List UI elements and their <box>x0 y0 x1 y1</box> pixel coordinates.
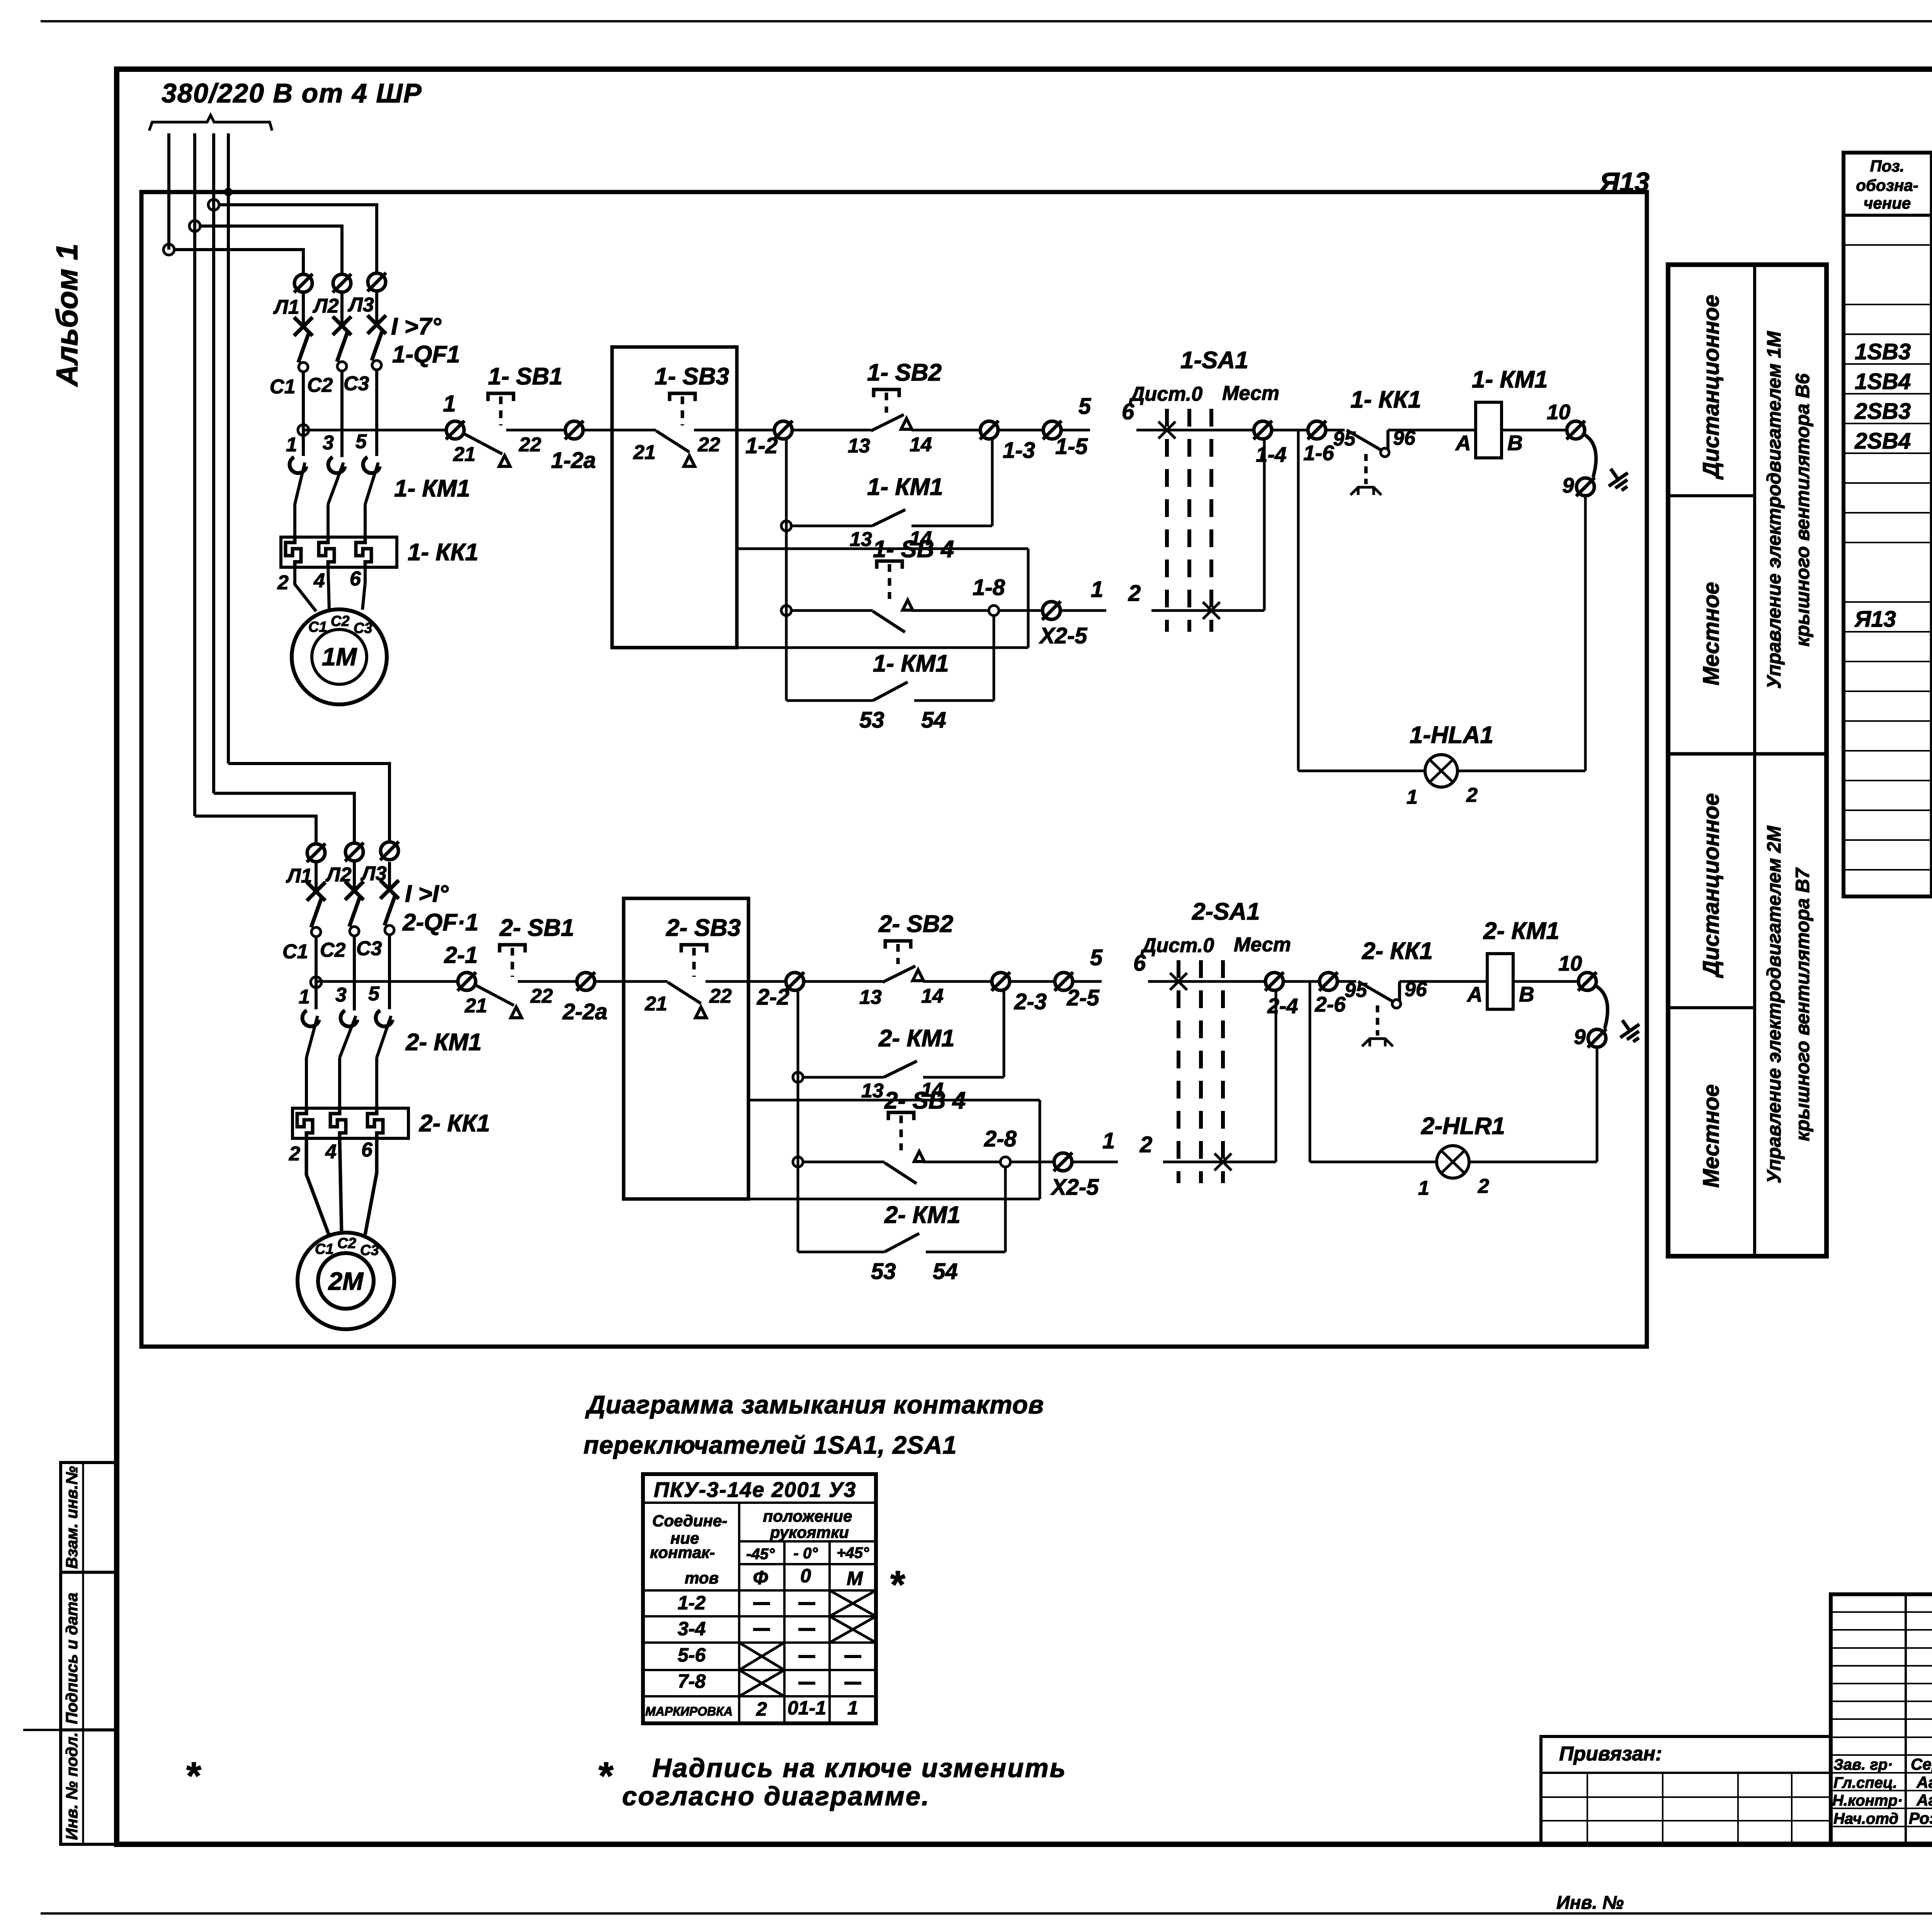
node feeder L3 tap <box>208 199 219 210</box>
label C1C2C3 motor1 <box>308 613 372 636</box>
svg-text:чение: чение <box>1864 194 1911 212</box>
terminal X2-5 2 <box>1054 1153 1072 1171</box>
wire loop top 1 <box>737 548 1028 550</box>
stamp label Инв.№ подл. <box>63 1732 81 1840</box>
label pin 4 <box>313 570 325 592</box>
svg-text:Инв. №: Инв. № <box>1556 1893 1624 1913</box>
junction SB4 2 <box>793 1157 803 1167</box>
contact 2-KM1 53-54 <box>798 1167 1005 1252</box>
label 1-6 <box>1303 441 1334 465</box>
svg-text:Надпись на ключе изменить: Надпись на ключе изменить <box>652 1753 1067 1783</box>
PKU row 1-2 <box>678 1590 876 1616</box>
wire lamp to 9 1 <box>1458 496 1585 771</box>
label C1 <box>270 376 295 398</box>
breaker 1-QF1 pole 1 <box>294 317 313 372</box>
svg-text:2SВ4: 2SВ4 <box>1854 429 1911 454</box>
motor 2M <box>298 1233 394 1329</box>
label pin 22 sb3 <box>709 985 732 1007</box>
svg-text:54: 54 <box>921 707 946 733</box>
svg-text:1- SB2: 1- SB2 <box>867 359 942 386</box>
svg-text:21: 21 <box>633 441 656 464</box>
label pin 13 aux <box>861 1080 884 1102</box>
wire feeder L3 to 2-QF-1 pole 2 <box>214 793 354 844</box>
junction feeder N on bus <box>224 188 233 196</box>
label C3 c2 <box>356 937 382 960</box>
contact cross SA1 bottom 2 <box>1214 1153 1231 1170</box>
svg-text:С3: С3 <box>354 620 372 636</box>
label 1-SB1 <box>488 363 563 390</box>
svg-text:контак-: контак- <box>650 1543 715 1561</box>
thermal relay 2-KK1 heater 1 <box>297 1109 313 1138</box>
label lamp pin 2 <box>1478 1175 1489 1197</box>
label pin 1 <box>286 434 297 456</box>
PKU asterisk <box>889 1563 905 1606</box>
svg-text:2-SА1: 2-SА1 <box>1192 898 1260 925</box>
svg-text:С2: С2 <box>307 374 333 396</box>
PKU row markirovka <box>645 1697 858 1720</box>
terminal 2-6 <box>1319 972 1338 991</box>
svg-text:2: 2 <box>756 1698 767 1720</box>
wire 6 into SA1 <box>1148 980 1265 983</box>
contactor coil 2-KM1 <box>1487 954 1513 1009</box>
svg-text:4: 4 <box>313 570 325 592</box>
diagram title line2 <box>583 1431 957 1459</box>
wire stub 5 <box>1061 429 1090 432</box>
svg-text:С3: С3 <box>344 372 369 395</box>
thermal contact 2-KK1 <box>1337 981 1487 1046</box>
wire lamp row 1 <box>1298 770 1425 772</box>
label 1 <box>443 391 456 417</box>
terminal 2-2 <box>786 972 804 991</box>
svg-text:2: 2 <box>1478 1175 1489 1197</box>
terminal 1-5 <box>1043 421 1061 439</box>
label I>7deg <box>391 313 442 340</box>
svg-text:положение: положение <box>763 1507 852 1525</box>
wire feeder L3 drop <box>212 133 215 793</box>
wire coil to 10 <box>1513 980 1578 983</box>
selector switch 2-SA1 columns <box>1179 960 1223 1183</box>
label Л2 <box>312 295 339 317</box>
node control tap circuit2 <box>311 977 321 988</box>
label pin B <box>1519 982 1534 1006</box>
thermal relay 1-KK1 heater 1 <box>286 538 301 567</box>
label 2-KM1 main <box>405 1029 482 1056</box>
label 2-SA1 <box>1192 898 1260 925</box>
wire 2 into SA1 1 <box>1151 609 1264 612</box>
terminal 2-3 <box>992 972 1010 991</box>
wire c2 pole1 breaker to node <box>315 937 318 1009</box>
footnote asterisk left <box>185 1754 201 1798</box>
terminal 1-6 <box>1308 421 1326 439</box>
label pin 13 aux <box>850 528 872 551</box>
label pin 9 1 <box>1562 473 1574 497</box>
ground 2 <box>1613 1014 1646 1046</box>
label X2-5 2 <box>1050 1175 1099 1200</box>
svg-text:9: 9 <box>1562 473 1574 497</box>
svg-text:1: 1 <box>847 1697 858 1719</box>
svg-text:2-4: 2-4 <box>1267 994 1298 1018</box>
label 1-5 <box>1055 434 1088 459</box>
label 1-8 <box>973 575 1005 600</box>
svg-text:1- КМ1: 1- КМ1 <box>873 650 949 677</box>
mode table frame <box>1668 265 1827 1256</box>
svg-text:21: 21 <box>464 995 487 1017</box>
label pin 6 <box>350 568 361 590</box>
label 2-QF-1 <box>402 909 478 936</box>
svg-text:1- КМ1: 1- КМ1 <box>394 475 470 502</box>
PKU col soedinenie <box>650 1512 727 1587</box>
privyazan box <box>1541 1736 1831 1844</box>
svg-text:2- SB3: 2- SB3 <box>666 915 741 941</box>
svg-text:2-8: 2-8 <box>984 1126 1017 1151</box>
svg-text:Сергиенко: Сергиенко <box>1911 1755 1932 1773</box>
wire 2-4 to 2-6 <box>1283 980 1320 983</box>
terminal L3 circuit1 <box>367 273 386 291</box>
svg-text:согласно диаграмме.: согласно диаграмме. <box>622 1781 930 1811</box>
terminal 2-5 <box>1054 972 1073 991</box>
svg-text:В: В <box>1507 431 1523 455</box>
wire pole1 breaker to node <box>302 372 305 456</box>
svg-text:2-HLR1: 2-HLR1 <box>1421 1113 1505 1139</box>
label 1-KM1 53 <box>873 650 949 677</box>
svg-text:Привязан:: Привязан: <box>1559 1743 1662 1765</box>
thermal relay 1-KK1 heater 3 <box>356 538 371 567</box>
label pin 21 sb1 <box>464 995 487 1017</box>
wire c2 pole1 terminal to breaker <box>315 862 318 889</box>
contactor 1-KM1 main contact pole2 <box>328 457 345 537</box>
label 1-2a <box>551 448 596 473</box>
svg-text:13: 13 <box>861 1080 884 1102</box>
svg-text:Диаграмма замыкания контакто: Диаграмма замыкания контактов <box>585 1390 1044 1419</box>
label 1-4 <box>1256 442 1287 466</box>
supply label 380/220V <box>162 78 422 108</box>
wire c2 pole2 breaker to node <box>353 936 356 1010</box>
svg-text:Дист.0: Дист.0 <box>1129 383 1202 405</box>
terminal 10 2 <box>1578 972 1597 991</box>
label 1-SB2 <box>867 359 942 386</box>
thermal relay 1-KK1 box <box>281 537 397 567</box>
label 2-SB4 <box>884 1087 966 1114</box>
contact cross SA1 top <box>1170 973 1187 990</box>
contactor 2-KM1 main contact pole3 <box>376 1010 393 1108</box>
svg-text:Управление электродвигателем: Управление электродвигателем 2М <box>1763 825 1785 1184</box>
terminal 9 1 <box>1576 478 1595 496</box>
svg-text:Поз.: Поз. <box>1870 157 1905 175</box>
junction SB4 1 <box>781 605 791 616</box>
svg-text:1: 1 <box>299 986 310 1008</box>
label lamp pin 1 <box>1418 1177 1429 1199</box>
svg-text:13: 13 <box>859 986 882 1009</box>
svg-text:2- SB1: 2- SB1 <box>499 915 574 941</box>
label pin 22 sb1 <box>530 985 553 1007</box>
svg-text:Розанов: Розанов <box>1909 1809 1932 1827</box>
terminal 2-2a <box>577 972 595 991</box>
junction aux 1 <box>781 521 791 531</box>
svg-text:1: 1 <box>443 391 456 417</box>
label pin 22 sb3 <box>697 434 720 456</box>
svg-text:МАРКИРОВКА: МАРКИРОВКА <box>645 1704 733 1718</box>
svg-text:тов: тов <box>685 1569 719 1587</box>
svg-text:*: * <box>185 1754 201 1798</box>
label pin 14 sb2 <box>910 434 932 456</box>
svg-text:5: 5 <box>368 983 380 1005</box>
terminal 1-4 <box>1253 421 1272 439</box>
wire to X2-5 <box>1010 1161 1054 1163</box>
svg-text:22: 22 <box>519 434 541 456</box>
label 1-HLА1 <box>1410 722 1493 748</box>
svg-text:Нач.отд: Нач.отд <box>1833 1810 1898 1827</box>
thermal relay 1-KK1 heater 2 <box>319 538 334 567</box>
svg-text:9: 9 <box>1574 1025 1586 1049</box>
terminal L1 circuit2 <box>307 844 325 862</box>
label pin 96 <box>1393 427 1416 449</box>
pushbutton 1-SB4 <box>791 561 989 632</box>
svg-text:13: 13 <box>850 528 872 551</box>
svg-text:1SВ4: 1SВ4 <box>1855 369 1911 394</box>
svg-text:10: 10 <box>1547 400 1571 424</box>
svg-text:С2: С2 <box>331 613 350 629</box>
label Dist 0 Mest <box>1140 934 1291 957</box>
svg-text:54: 54 <box>933 1259 958 1284</box>
sig row nachotd <box>1833 1809 1932 1827</box>
label C3 <box>344 372 369 395</box>
terminal 1-2 <box>774 421 793 439</box>
parts row 2SB4 <box>1854 429 1911 454</box>
svg-text:2- КК1: 2- КК1 <box>1362 938 1433 964</box>
brace under supply label <box>149 115 272 131</box>
mode label Upravlenie 1 <box>1763 331 1813 689</box>
svg-text:ПКУ-3-14е 2001 У3: ПКУ-3-14е 2001 У3 <box>654 1478 856 1502</box>
breaker 1-QF1 pole 2 <box>333 316 351 371</box>
wire stub 1 2 <box>1072 1161 1118 1163</box>
svg-text:крышного вентилятора В6: крышного вентилятора В6 <box>1792 373 1813 646</box>
svg-text:Л1: Л1 <box>273 296 299 318</box>
svg-text:1-2а: 1-2а <box>551 448 596 473</box>
wire c2 pole3 terminal to breaker <box>388 862 391 889</box>
label pin 5 c2 <box>368 983 380 1005</box>
svg-text:4: 4 <box>325 1141 337 1163</box>
wire lamp row 2 <box>1310 1161 1437 1163</box>
wire to X2-5 <box>998 609 1043 612</box>
svg-text:Мест: Мест <box>1222 382 1279 405</box>
svg-text:С2: С2 <box>320 939 346 961</box>
label pin 10 1 <box>1547 400 1571 424</box>
svg-text:2М: 2М <box>328 1267 364 1295</box>
label wire 1 1 <box>1091 577 1103 602</box>
label 2-SB2 <box>878 911 953 937</box>
svg-text:5: 5 <box>1078 394 1091 419</box>
label pin 96 <box>1405 978 1427 1001</box>
label wire 5 <box>1078 394 1091 419</box>
svg-text:1-5: 1-5 <box>1055 434 1088 459</box>
label I>I deg <box>405 881 449 907</box>
wire 6 into SA1 <box>1136 429 1254 432</box>
PKU row 3-4 <box>678 1616 876 1643</box>
label wire 2 1 <box>1128 581 1141 606</box>
wire loop right 1 <box>1027 549 1030 648</box>
svg-text:+45°: +45° <box>837 1544 869 1561</box>
pushbutton 2-SB2 start <box>804 941 992 982</box>
label C2 c2 <box>320 939 346 961</box>
svg-text:Инв. № подл.: Инв. № подл. <box>63 1732 81 1840</box>
svg-text:1-QF1: 1-QF1 <box>392 341 460 368</box>
label motor 2M <box>328 1267 364 1295</box>
wire lamp left drop 2 <box>1309 981 1311 1162</box>
svg-text:- 0°: - 0° <box>794 1545 818 1562</box>
svg-text:Местное: Местное <box>1699 582 1724 685</box>
svg-text:Х2-5: Х2-5 <box>1050 1175 1099 1200</box>
label pin 6 c2 <box>361 1139 373 1161</box>
svg-text:Агеев: Агеев <box>1916 1791 1932 1809</box>
label 2-KK1 contact <box>1362 938 1433 964</box>
svg-text:95: 95 <box>1333 428 1356 450</box>
label 1-KK1 contact <box>1350 386 1421 413</box>
label pin 9 2 <box>1574 1025 1586 1049</box>
wire aux up to 2-3 <box>1003 990 1005 1077</box>
label 1-2 <box>745 433 778 458</box>
terminal L2 circuit1 <box>333 274 351 293</box>
svg-text:3: 3 <box>335 984 347 1006</box>
label pin 14 aux <box>921 1079 944 1101</box>
svg-text:В: В <box>1519 982 1534 1006</box>
terminal L3 circuit2 <box>380 842 399 860</box>
wire 1-KK1 to motor 1M <box>295 567 365 611</box>
thermal relay 2-KK1 heater 3 <box>367 1109 383 1138</box>
label 1-SB4 <box>873 536 954 563</box>
terminal 1-1 <box>446 421 464 439</box>
terminal 2-4 <box>1265 972 1284 991</box>
contact cross SA1 bottom 1 <box>1203 602 1220 619</box>
wire pole1 terminal to breaker <box>302 293 305 324</box>
svg-text:2: 2 <box>1139 1132 1152 1157</box>
label 2-KM1 aux <box>878 1025 955 1052</box>
svg-text:1: 1 <box>1102 1128 1115 1153</box>
label 2-3 <box>1014 989 1047 1014</box>
svg-text:0: 0 <box>800 1565 811 1587</box>
signal lamp 1-HLА1 <box>1425 755 1458 787</box>
terminal 2-1 <box>457 972 476 991</box>
svg-text:5: 5 <box>355 430 367 453</box>
svg-text:5-6: 5-6 <box>678 1644 706 1666</box>
thermal contact 1-KK1 <box>1326 430 1476 495</box>
label 2-SB3 <box>666 915 741 941</box>
label 2-KM1 coil <box>1483 918 1560 944</box>
wire pole3 terminal to breaker <box>375 293 378 324</box>
label 2-6 <box>1315 992 1346 1016</box>
label pin 4 c2 <box>325 1141 337 1163</box>
svg-text:Я13: Я13 <box>1854 607 1896 632</box>
svg-text:1: 1 <box>286 434 297 456</box>
contactor 2-KM1 main contact pole2 <box>340 1010 357 1108</box>
wire stub 5 <box>1073 980 1102 983</box>
svg-text:6: 6 <box>361 1139 373 1161</box>
buttons box 2-SB3/2-SB4 <box>624 898 748 1199</box>
svg-text:С1: С1 <box>270 376 295 398</box>
parts row 1SB3 <box>1855 339 1932 364</box>
parts header Poz <box>1856 157 1918 212</box>
label pin 53 <box>859 707 884 733</box>
wire 2 into SA1 2 <box>1163 1161 1276 1163</box>
label pin 13 sb2 <box>848 435 870 457</box>
sig row zavgr <box>1833 1755 1932 1773</box>
mode label Distantsionnoe 1 <box>1699 295 1724 480</box>
breaker 1-QF1 pole 3 <box>367 315 386 370</box>
junction 1-8 <box>989 605 999 616</box>
label Л2 c2 <box>325 864 352 886</box>
svg-text:Дистанционное: Дистанционное <box>1699 295 1724 480</box>
wire lamp to 9 2 <box>1469 1047 1597 1162</box>
svg-text:1- КК1: 1- КК1 <box>408 539 478 566</box>
terminal 10 1 <box>1566 421 1585 439</box>
PKU row 5-6 <box>678 1643 861 1670</box>
contact 2-KM1 13-14 selfhold <box>803 1061 1004 1077</box>
label wire 2 2 <box>1139 1132 1152 1157</box>
footnote <box>597 1753 1067 1811</box>
label 2-2 <box>757 985 789 1010</box>
label Л1 <box>273 296 299 318</box>
svg-text:2-1: 2-1 <box>444 942 478 968</box>
svg-text:1М: 1М <box>322 643 357 671</box>
contactor 1-KM1 main contact pole1 <box>290 457 306 537</box>
label lamp pin 1 <box>1406 786 1418 808</box>
pushbutton 2-SB1 stop <box>474 945 577 1018</box>
svg-text:1-HLА1: 1-HLА1 <box>1410 722 1493 748</box>
wire pole2 breaker to node <box>340 371 344 457</box>
svg-text:Ф: Ф <box>753 1567 768 1588</box>
svg-text:1: 1 <box>1406 786 1418 808</box>
svg-text:22: 22 <box>530 985 553 1007</box>
label pin 3 <box>323 432 334 454</box>
label Л3 c2 <box>360 862 387 885</box>
pushbutton 1-SB3 stop <box>656 393 774 466</box>
parts table grid <box>1844 153 1932 896</box>
svg-text:С1: С1 <box>308 619 327 635</box>
wire 1-4 to 1-6 <box>1272 429 1308 432</box>
svg-text:1- КМ1: 1- КМ1 <box>1472 366 1548 393</box>
pushbutton 2-SB4 <box>803 1112 1001 1184</box>
label 1-KM1 aux <box>867 474 943 500</box>
svg-text:2- КМ1: 2- КМ1 <box>405 1029 482 1056</box>
label pin 54 <box>933 1259 958 1284</box>
label pin 14 sb2 <box>921 985 944 1007</box>
svg-text:2: 2 <box>1466 784 1478 806</box>
label pin 13 sb2 <box>859 986 882 1009</box>
label pin 21 sb3 <box>633 441 656 464</box>
label Я13 <box>1599 167 1650 197</box>
label 2-5 <box>1066 985 1100 1010</box>
svg-text:1-6: 1-6 <box>1303 441 1334 465</box>
svg-text:2: 2 <box>289 1143 300 1165</box>
label pin 2 <box>277 571 289 594</box>
label pin 21 sb3 <box>645 993 667 1015</box>
margin inv no <box>1556 1893 1624 1913</box>
svg-text:Подпись и дата: Подпись и дата <box>63 1593 81 1724</box>
wire SA1 up to 1-4 <box>1263 439 1266 611</box>
svg-text:А: А <box>1455 431 1471 455</box>
motor 1M <box>292 609 387 704</box>
wire to 1-SB3 <box>583 429 656 432</box>
svg-text:Х2-5: Х2-5 <box>1039 623 1087 648</box>
album label <box>50 243 84 387</box>
svg-text:1-SА1: 1-SА1 <box>1180 347 1248 374</box>
svg-text:1- SB1: 1- SB1 <box>488 363 563 390</box>
pushbutton 1-SB2 start <box>792 389 980 431</box>
svg-text:1-4: 1-4 <box>1256 442 1287 466</box>
svg-text:2SВ3: 2SВ3 <box>1854 399 1911 424</box>
contact cross SA1 top <box>1158 422 1175 439</box>
svg-text:2- КМ1: 2- КМ1 <box>878 1025 955 1052</box>
svg-text:Местное: Местное <box>1699 1084 1724 1188</box>
